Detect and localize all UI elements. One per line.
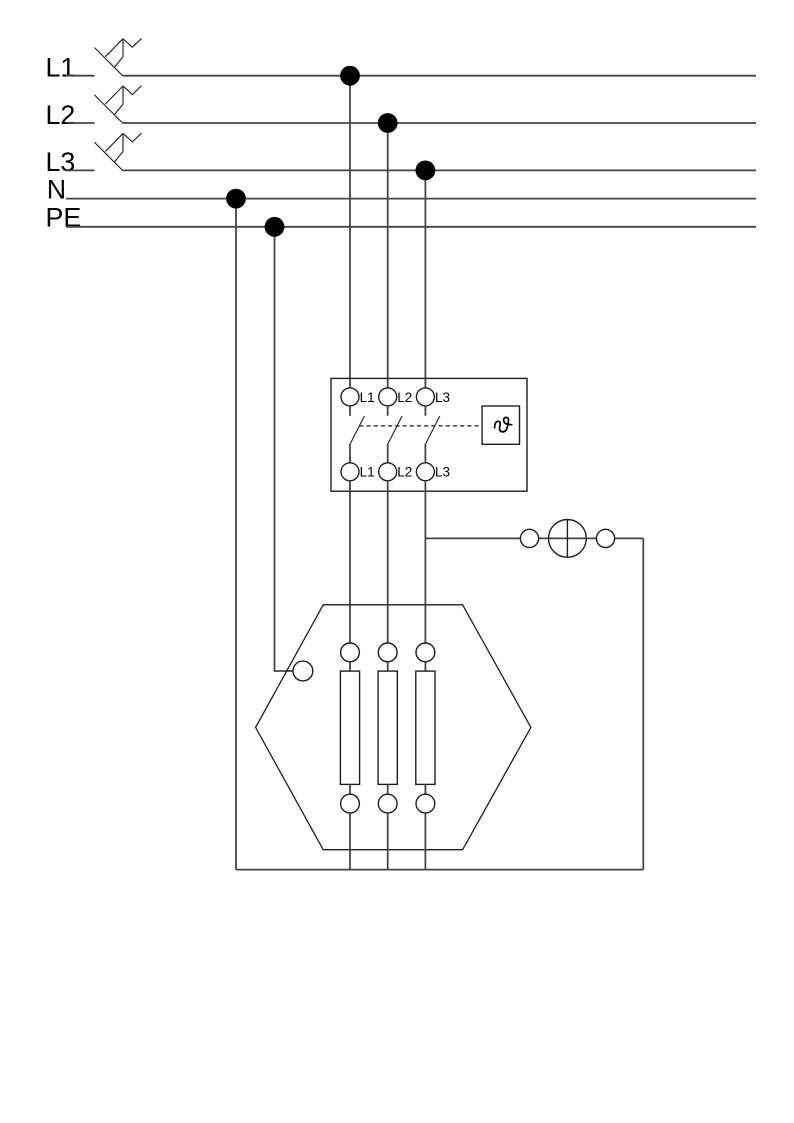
wire lamp return drop <box>642 538 644 869</box>
wire L3 main <box>123 169 756 171</box>
svg-text:L2: L2 <box>397 465 412 480</box>
theta symbol <box>495 417 512 432</box>
junction dot L2 <box>378 113 398 133</box>
contactor pole 1 wires <box>349 406 351 416</box>
junction dot PE <box>265 217 285 237</box>
svg-text:L1: L1 <box>360 390 375 405</box>
svg-text:N: N <box>47 175 66 205</box>
heater element 2 bottom terminal <box>378 794 397 813</box>
wire L1 main <box>123 75 756 77</box>
heater element 2 lower stub <box>387 784 389 794</box>
svg-text:L3: L3 <box>435 390 450 405</box>
contactor terminal L1 top <box>341 388 359 406</box>
thermal linkage dashed line <box>359 425 482 427</box>
wire pole3 to heater <box>424 481 426 643</box>
junction dot L1 <box>340 66 360 86</box>
PE terminal circle on heater <box>293 661 313 681</box>
heater element 2 stub <box>387 662 389 671</box>
contactor pole 3 wires <box>424 406 426 416</box>
heater element 2 top terminal <box>378 643 397 662</box>
wire L2 left stub <box>66 122 95 124</box>
svg-text:L3: L3 <box>46 147 76 177</box>
indicator lamp E2 <box>549 520 587 558</box>
wire PE drop <box>275 227 294 671</box>
contactor pole 3 contact lever <box>426 416 440 444</box>
wire bottom bus <box>236 869 643 871</box>
wire L3 drop to contactor <box>424 170 426 388</box>
heater element 3 resistor <box>416 671 435 784</box>
svg-text:L2: L2 <box>397 390 412 405</box>
wire L1 left stub <box>66 75 95 77</box>
heater element 1 resistor <box>340 671 359 784</box>
junction dot N <box>226 189 246 209</box>
wire N main <box>66 198 756 200</box>
heater element 2 resistor <box>378 671 397 784</box>
heater element 2 return wire <box>387 813 389 870</box>
contactor terminal L2 bottom <box>379 463 397 481</box>
svg-text:L1: L1 <box>46 52 76 82</box>
thermal release box F1 <box>482 406 519 444</box>
wire L2 main <box>123 122 756 124</box>
heater element 1 return wire <box>349 813 351 870</box>
connector plug left <box>520 529 538 547</box>
heater element 1 stub <box>349 662 351 671</box>
heater element 1 bottom terminal <box>341 794 360 813</box>
wire L3 left stub <box>66 169 95 171</box>
connector plug right <box>596 529 614 547</box>
heater element 1 top terminal <box>341 643 360 662</box>
heater element 3 bottom terminal <box>416 794 435 813</box>
wire lamp branch <box>425 537 643 539</box>
contactor terminal L2 top <box>379 388 397 406</box>
svg-text:L1: L1 <box>360 465 375 480</box>
contactor pole 2 contact lever <box>388 416 402 444</box>
heater element 3 return wire <box>424 813 426 870</box>
circuit breaker Q2 (L2) <box>94 86 141 123</box>
heater element 3 top terminal <box>416 643 435 662</box>
contactor pole 2 wires <box>387 406 389 416</box>
contactor terminal L1 bottom <box>341 463 359 481</box>
contactor K1 box <box>331 378 527 491</box>
heater element 3 lower stub <box>424 784 426 794</box>
wire pole1 to heater <box>349 481 351 643</box>
contactor terminal L3 bottom <box>416 463 434 481</box>
wire PE main <box>66 226 756 228</box>
heater body E1 hexagon <box>256 605 531 850</box>
svg-text:PE: PE <box>46 203 82 233</box>
circuit breaker Q1 (L1) <box>94 38 141 75</box>
wire pole2 to heater <box>387 481 389 643</box>
contactor terminal L3 top <box>416 388 434 406</box>
heater element 3 stub <box>424 662 426 671</box>
wire L2 drop to contactor <box>387 123 389 388</box>
junction dot L3 <box>416 161 436 181</box>
wire L1 drop to contactor <box>349 76 351 389</box>
contactor pole 1 contact lever <box>350 416 364 444</box>
wire N drop to bottom bus <box>235 199 237 870</box>
svg-text:L3: L3 <box>435 465 450 480</box>
heater element 1 lower stub <box>349 784 351 794</box>
circuit breaker Q3 (L3) <box>94 133 141 170</box>
svg-text:L2: L2 <box>46 100 76 130</box>
